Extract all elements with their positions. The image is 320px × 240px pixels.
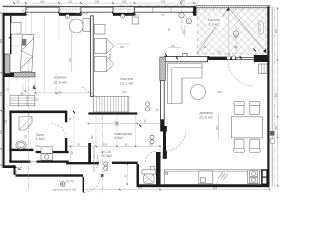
svg-text:235: 235 xyxy=(35,144,40,148)
svg-text:Д: Д xyxy=(235,32,237,36)
svg-text:373: 373 xyxy=(114,123,119,127)
svg-text:300: 300 xyxy=(215,125,219,130)
svg-text:425: 425 xyxy=(213,186,218,190)
svg-text:6.5м2: 6.5м2 xyxy=(114,136,123,140)
svg-text:585: 585 xyxy=(0,38,3,43)
svg-text:345: 345 xyxy=(0,91,3,96)
svg-text:290: 290 xyxy=(68,57,72,62)
svg-text:+5.70: +5.70 xyxy=(65,180,73,184)
svg-text:200: 200 xyxy=(24,134,27,139)
svg-text:150: 150 xyxy=(4,119,7,124)
svg-text:438: 438 xyxy=(217,90,222,94)
svg-text:423: 423 xyxy=(180,0,185,3)
svg-text:13.1 м2: 13.1 м2 xyxy=(120,81,135,86)
svg-text:200: 200 xyxy=(91,135,94,140)
svg-text:200: 200 xyxy=(114,120,119,124)
svg-text:435: 435 xyxy=(161,0,166,4)
svg-text:100: 100 xyxy=(103,143,108,147)
svg-text:330: 330 xyxy=(0,129,3,134)
svg-text:4.3м2: 4.3м2 xyxy=(35,137,44,141)
svg-text:205: 205 xyxy=(274,92,278,97)
svg-text:240: 240 xyxy=(40,0,45,4)
svg-text:140: 140 xyxy=(171,44,176,48)
svg-text:360: 360 xyxy=(120,45,125,49)
svg-text:Балкон: Балкон xyxy=(208,18,221,22)
svg-text:термопанел 25: термопанел 25 xyxy=(128,15,141,17)
svg-text:205: 205 xyxy=(20,91,24,96)
svg-text:240: 240 xyxy=(95,0,100,4)
svg-text:ПВЦ дограма: ПВЦ дограма xyxy=(75,13,88,15)
svg-text:195: 195 xyxy=(217,51,222,54)
svg-text:375: 375 xyxy=(122,90,127,94)
svg-text:160: 160 xyxy=(122,0,127,4)
svg-text:150: 150 xyxy=(68,0,73,4)
svg-text:205: 205 xyxy=(108,53,112,58)
svg-text:6.3 м2: 6.3 м2 xyxy=(209,23,220,27)
svg-text:ТАБЛО 24ч: ТАБЛО 24ч xyxy=(96,154,99,168)
svg-text:300: 300 xyxy=(274,125,278,130)
svg-text:160: 160 xyxy=(138,186,143,190)
svg-text:12.8 м2: 12.8 м2 xyxy=(53,79,68,84)
svg-text:21.8 м2: 21.8 м2 xyxy=(199,115,214,120)
svg-text:162: 162 xyxy=(181,29,185,34)
svg-text:офертна площ 94.7м2: офертна площ 94.7м2 xyxy=(53,189,77,192)
svg-text:76.3м2: 76.3м2 xyxy=(101,154,112,158)
svg-text:ПВЦ 240: ПВЦ 240 xyxy=(260,22,262,32)
svg-text:298: 298 xyxy=(57,91,62,95)
svg-text:630: 630 xyxy=(274,28,278,33)
svg-text:ПВЦ: ПВЦ xyxy=(161,14,166,16)
